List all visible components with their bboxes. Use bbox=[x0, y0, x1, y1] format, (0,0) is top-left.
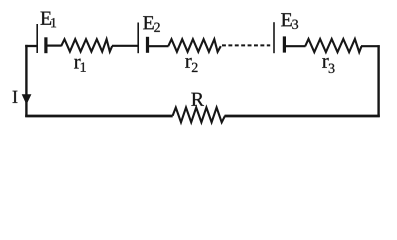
label E1 bbox=[41, 12, 57, 28]
label I bbox=[13, 91, 18, 103]
wire r1 to E2 bbox=[112, 45, 138, 47]
battery E2 long plate bbox=[137, 23, 139, 54]
wire left vertical bbox=[25, 45, 27, 117]
wire E2 to r2 bbox=[149, 45, 169, 47]
resistor r1 bbox=[61, 39, 112, 51]
resistor R bbox=[173, 108, 225, 123]
label R bbox=[191, 93, 204, 106]
label r2 bbox=[185, 58, 197, 72]
wire E3 to r3 bbox=[286, 45, 306, 47]
wire bottom left segment bbox=[25, 115, 173, 118]
wire top-left stub bbox=[25, 45, 38, 47]
label E2 bbox=[143, 16, 160, 32]
battery E1 short plate bbox=[44, 37, 47, 53]
resistor r2 bbox=[168, 39, 221, 52]
current arrow on left wire bbox=[22, 94, 32, 104]
resistor r3 bbox=[305, 39, 361, 52]
battery E3 long plate bbox=[273, 22, 275, 53]
battery E1 long plate bbox=[36, 24, 38, 53]
battery E3 short plate bbox=[283, 36, 286, 52]
battery E2 short plate bbox=[146, 37, 149, 53]
wire E1 to r1 bbox=[47, 44, 61, 46]
wire bottom right segment bbox=[225, 115, 380, 118]
wire dashed r2 to E3 bbox=[222, 44, 270, 46]
wire r3 to top-right corner bbox=[361, 45, 380, 47]
label E3 bbox=[281, 13, 298, 29]
label r1 bbox=[74, 59, 86, 72]
label r3 bbox=[322, 58, 334, 73]
wire right vertical bbox=[377, 45, 379, 117]
